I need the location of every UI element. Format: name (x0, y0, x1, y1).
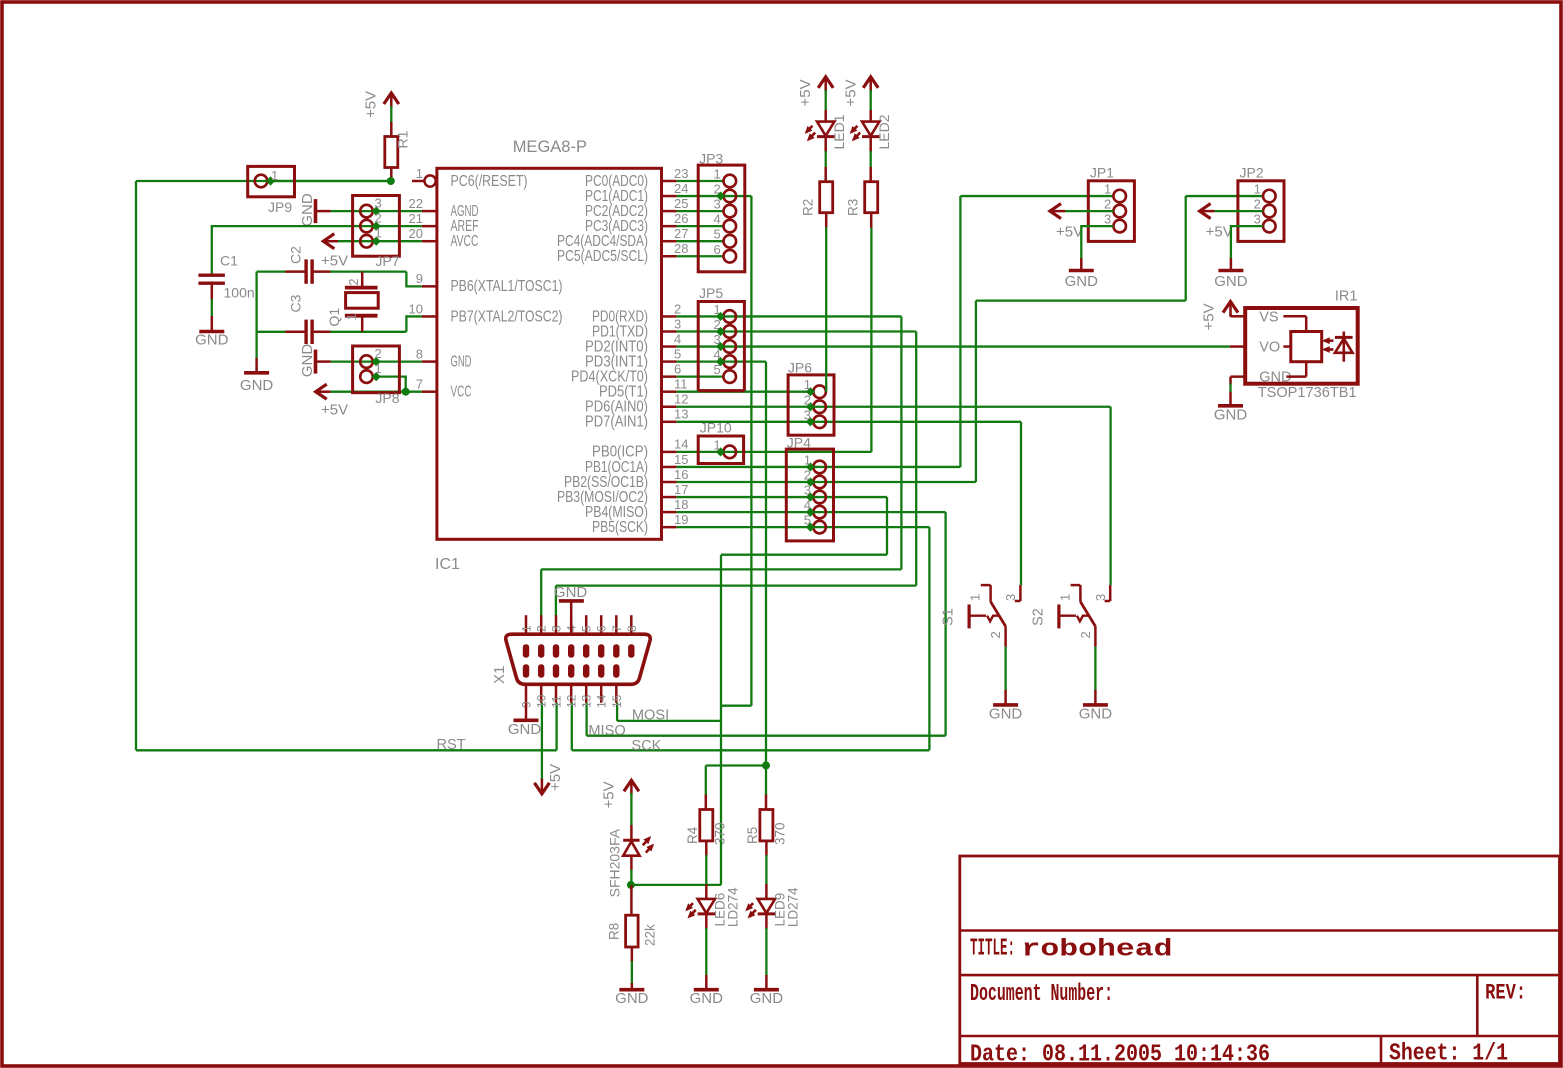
svg-text:SCK: SCK (631, 738, 661, 754)
svg-text:1: 1 (271, 168, 278, 183)
svg-text:1: 1 (713, 167, 720, 182)
svg-text:GND: GND (299, 344, 316, 378)
svg-text:1: 1 (375, 226, 382, 241)
IR1 photodiode symbol (1343, 332, 1346, 362)
power +5V arrow JP2 pin2 (1200, 204, 1211, 219)
IR receiver IR1 box (1245, 308, 1358, 384)
svg-text:6: 6 (595, 625, 609, 632)
svg-text:GND: GND (451, 353, 472, 370)
svg-text:6: 6 (713, 242, 720, 257)
svg-text:3: 3 (1254, 212, 1261, 227)
connector JP3 box (698, 165, 745, 272)
svg-text:2: 2 (375, 211, 382, 226)
svg-text:3: 3 (1093, 594, 1108, 601)
svg-text:GND: GND (1214, 273, 1248, 290)
wire AVCC net (338, 240, 422, 242)
svg-text:R4: R4 (685, 826, 700, 844)
svg-text:1: 1 (375, 361, 382, 376)
svg-text:+5V: +5V (1200, 303, 1217, 330)
IR1 detector box (1291, 332, 1322, 362)
svg-text:S1: S1 (941, 608, 957, 626)
svg-text:robohead: robohead (1022, 937, 1173, 964)
svg-text:IC1: IC1 (435, 556, 460, 573)
connector JP6 pins (813, 385, 826, 398)
connector JP1 pins (1113, 190, 1126, 203)
LED LED9 (758, 899, 775, 913)
svg-text:26: 26 (674, 211, 688, 226)
photodiode SFH203FA (623, 839, 639, 842)
wire reset junction to IC pin1 circle (412, 180, 424, 183)
ground for AGND (rotated) (314, 199, 318, 223)
svg-text:2: 2 (347, 279, 361, 286)
svg-text:3: 3 (1003, 594, 1018, 601)
LED LED2 branch +5V arrow (863, 77, 878, 88)
svg-text:GND: GND (690, 990, 724, 1007)
svg-text:10: 10 (409, 301, 423, 316)
IR1 pin VO lead (1230, 345, 1246, 348)
power +5V arrow VCC (316, 384, 327, 399)
svg-text:17: 17 (674, 482, 688, 497)
switch S2 pin 1 (1071, 584, 1081, 587)
IC pin 13 stub (662, 421, 677, 424)
svg-text:3: 3 (375, 196, 382, 211)
IC pin 18 stub (662, 511, 677, 514)
wire JP5-4 to R4/R5 net (721, 360, 767, 362)
ground below IR1 (1218, 404, 1243, 408)
connector JP4 box (786, 449, 833, 541)
wire RESET net from JP9 to IC pin 1 and left drop (136, 180, 391, 182)
IC pin 1 inversion circle (425, 175, 436, 186)
svg-text:370: 370 (773, 822, 788, 845)
connector JP7 box (353, 196, 400, 257)
svg-text:14: 14 (595, 694, 609, 708)
svg-text:VS: VS (1259, 309, 1278, 325)
svg-text:370: 370 (713, 822, 728, 845)
connector X1 pads bottom row (523, 664, 529, 677)
svg-text:4: 4 (713, 212, 720, 227)
svg-text:100n: 100n (224, 285, 255, 301)
svg-text:3: 3 (804, 407, 811, 422)
power +5V arrow down (534, 783, 549, 794)
photodiode branch +5V arrow (624, 780, 639, 791)
IR1 pin GND lead to ground (1231, 375, 1246, 378)
IC pin 4 stub (662, 345, 677, 348)
svg-text:+5V: +5V (601, 781, 618, 808)
svg-text:14: 14 (674, 437, 688, 452)
IC pin 5 stub (662, 360, 677, 363)
svg-text:12: 12 (674, 392, 688, 407)
wire XTAL2 net row (257, 331, 286, 333)
wire JP5-2 to X1 pin3 net (721, 330, 917, 332)
svg-text:11: 11 (550, 695, 564, 708)
svg-text:2: 2 (1254, 197, 1261, 212)
switch S2 pin 3 (1109, 585, 1112, 601)
svg-text:5: 5 (580, 625, 594, 632)
svg-text:JP10: JP10 (700, 419, 732, 435)
svg-text:1: 1 (345, 313, 359, 320)
ground below X1 pin9 (525, 703, 528, 721)
svg-text:GND: GND (1079, 705, 1113, 722)
IC pin 7 stub (422, 390, 437, 393)
svg-text:C3: C3 (288, 294, 304, 312)
svg-text:Sheet: 1/1: Sheet: 1/1 (1389, 1041, 1508, 1068)
svg-text:PB5(SCK): PB5(SCK) (592, 519, 648, 536)
svg-text:C1: C1 (220, 253, 238, 269)
svg-text:PD7(AIN1): PD7(AIN1) (585, 414, 648, 431)
svg-text:R8: R8 (607, 923, 622, 940)
connector JP10 pin (723, 446, 736, 459)
wire IC pin14 to JP10 and R3 net (677, 451, 724, 453)
ground below LED9 (754, 988, 779, 992)
svg-text:22k: 22k (643, 924, 658, 946)
connector JP2 box (1238, 181, 1284, 242)
ground below LED6 (694, 988, 719, 992)
IC pin 17 stub (662, 496, 677, 499)
IC pin 12 stub (662, 406, 677, 409)
svg-text:18: 18 (674, 497, 688, 512)
connector JP9 pin circle (255, 175, 268, 188)
ground below JP1 (1069, 269, 1094, 273)
wire VCC net (331, 391, 422, 393)
IC1 MEGA8-P body (437, 168, 662, 539)
connector JP8 box (353, 346, 400, 393)
wire JP4 pin3 net path (721, 554, 887, 556)
svg-text:C2: C2 (288, 246, 304, 264)
svg-text:Q1: Q1 (326, 308, 342, 327)
svg-text:Date: 08.11.2005 10:14:36: Date: 08.11.2005 10:14:36 (970, 1042, 1270, 1068)
svg-text:20: 20 (409, 226, 423, 241)
svg-text:13: 13 (674, 407, 688, 422)
resistor R8 (630, 885, 633, 916)
connector JP1 box (1088, 181, 1134, 242)
svg-text:JP8: JP8 (375, 390, 399, 406)
IC pin 11 stub (662, 390, 677, 393)
svg-text:+5V: +5V (797, 79, 814, 106)
wire JP4-4 MISO net (810, 511, 945, 513)
svg-text:R5: R5 (745, 827, 760, 844)
IC pin 6 stub (662, 375, 677, 378)
IC pin 23 stub (662, 180, 677, 183)
svg-text:JP5: JP5 (699, 285, 723, 301)
svg-text:7: 7 (416, 377, 423, 392)
svg-text:+5V: +5V (842, 79, 859, 106)
IC pin 8 stub (422, 360, 437, 363)
wire R2 to JP6 pin1 (825, 213, 828, 228)
svg-text:21: 21 (409, 211, 423, 226)
wire JP6-3 to S1 net (810, 421, 1021, 423)
svg-text:2: 2 (804, 392, 811, 407)
svg-text:PB6(XTAL1/TOSC1): PB6(XTAL1/TOSC1) (451, 278, 563, 295)
connector X1 pin stubs top (525, 615, 528, 634)
power +5V arrow JP1 pin2 (1050, 204, 1061, 219)
wire GND to JP8 pin2 (331, 360, 422, 362)
connector JP9 box (248, 166, 295, 196)
capacitor C1 (198, 274, 225, 277)
wire JP4-1 to JP1 net (810, 466, 960, 468)
wire XTAL1 net row (257, 270, 286, 272)
IC pin 24 stub (662, 195, 677, 198)
svg-text:10: 10 (535, 694, 549, 708)
svg-text:2: 2 (674, 301, 681, 316)
wire JP5-1 to X1 pin2 net (721, 315, 902, 317)
svg-text:12: 12 (565, 694, 579, 708)
IC pin 27 stub (662, 240, 677, 243)
wire JP2 pin3 to ground (1231, 226, 1263, 259)
svg-text:15: 15 (674, 452, 688, 467)
svg-text:2: 2 (375, 346, 382, 361)
wire left branch to ground (255, 272, 257, 359)
svg-text:GND: GND (299, 193, 316, 227)
svg-text:JP1: JP1 (1090, 165, 1114, 181)
ground below R8 (619, 988, 644, 992)
IC pin 10 stub (422, 315, 437, 318)
svg-text:5: 5 (804, 513, 811, 528)
crystal Q1 (361, 272, 364, 287)
wire JP5-3 to IR1 VO net (721, 345, 1230, 347)
resistor R4 (705, 795, 708, 811)
svg-text:LED2: LED2 (876, 114, 892, 149)
connector JP7 pins (360, 205, 373, 218)
ground below JP2 (1218, 269, 1243, 273)
svg-text:GND: GND (195, 332, 229, 349)
svg-text:+5V: +5V (321, 402, 348, 419)
LED LED1 (817, 122, 834, 136)
LED LED6 (698, 899, 715, 913)
resistor R5 (765, 795, 768, 811)
svg-text:TITLE:: TITLE: (970, 936, 1015, 963)
svg-text:JP2: JP2 (1240, 165, 1264, 181)
svg-text:2: 2 (988, 631, 1003, 638)
resistor R3 (865, 182, 878, 213)
svg-text:1: 1 (416, 166, 423, 181)
connector JP2 pins (1263, 190, 1276, 203)
svg-text:11: 11 (674, 377, 688, 392)
svg-text:PB7(XTAL2/TOSC2): PB7(XTAL2/TOSC2) (451, 308, 563, 325)
wire JP4-3 stub right (810, 496, 887, 498)
svg-text:2: 2 (535, 625, 549, 632)
wire MOSI from X1 pin15 (616, 703, 618, 721)
svg-text:8: 8 (625, 625, 639, 632)
power +5V arrow above R1 (384, 93, 399, 104)
wire R3 lead down (870, 213, 873, 228)
svg-text:22: 22 (409, 196, 423, 211)
node junction R4/R5 (762, 762, 770, 770)
wire +5V to R1 (390, 106, 392, 124)
svg-text:25: 25 (674, 196, 688, 211)
wires IC right pins to JP3 (677, 180, 724, 182)
svg-text:1: 1 (1254, 182, 1261, 197)
wire net PC1 bus vertical down (750, 196, 752, 706)
svg-text:Document Number:: Document Number: (970, 981, 1113, 1008)
svg-text:6: 6 (674, 361, 681, 376)
connector JP5 box bottom edge redraw (698, 389, 744, 392)
wire JP3 pin2 net to vertical bus (721, 195, 752, 197)
wire JP4-5 SCK net (810, 526, 929, 528)
svg-text:MEGA8-P: MEGA8-P (513, 138, 587, 156)
IC pin 16 stub (662, 481, 677, 484)
svg-text:MOSI: MOSI (632, 707, 669, 723)
LED LED1 branch +5V arrow (818, 77, 833, 88)
IC pin 25 stub (662, 210, 677, 213)
switch S1 actuator (967, 605, 970, 629)
svg-text:5: 5 (713, 227, 720, 242)
svg-text:1: 1 (520, 625, 534, 632)
wire JP4-2 to JP2 net (810, 481, 976, 483)
svg-text:GND: GND (989, 705, 1023, 722)
svg-text:JP9: JP9 (268, 199, 292, 215)
svg-text:JP7: JP7 (375, 253, 399, 269)
svg-text:28: 28 (674, 241, 688, 256)
connector JP6 box (788, 375, 834, 435)
resistor R2 (820, 182, 833, 213)
svg-text:2: 2 (1104, 197, 1111, 212)
svg-text:2: 2 (1078, 631, 1093, 638)
svg-text:1: 1 (713, 437, 720, 452)
connector X1 DB15 shell (506, 634, 651, 684)
connector JP4 pins (813, 461, 826, 474)
svg-text:IR1: IR1 (1335, 288, 1358, 304)
switch S2 pin 2 to ground (1094, 626, 1097, 646)
svg-text:MISO: MISO (588, 723, 625, 739)
IC pin 9 stub (422, 285, 437, 288)
svg-text:13: 13 (580, 694, 594, 708)
wire +5V drop X1 pin10 (541, 703, 543, 781)
svg-text:4: 4 (804, 498, 811, 513)
ground below S1 (993, 703, 1018, 707)
svg-text:+5V: +5V (362, 91, 379, 118)
IC pin 28 stub (662, 255, 677, 258)
svg-text:X1: X1 (491, 666, 508, 684)
ground below C1 (199, 330, 224, 334)
svg-text:3: 3 (550, 625, 564, 632)
svg-text:VO: VO (1259, 339, 1280, 355)
ground below S2 (1083, 703, 1108, 707)
svg-text:1: 1 (1057, 594, 1072, 601)
svg-text:15: 15 (610, 694, 624, 708)
svg-text:4: 4 (674, 331, 681, 346)
svg-text:1: 1 (968, 594, 983, 601)
svg-text:7: 7 (610, 625, 624, 632)
svg-text:GND: GND (508, 721, 542, 738)
svg-text:27: 27 (674, 226, 688, 241)
wire AREF net from C1 (212, 226, 422, 274)
switch S2 lever (1080, 602, 1095, 627)
svg-text:3: 3 (804, 483, 811, 498)
svg-text:5: 5 (674, 346, 681, 361)
wires IC right pins to JP5 (677, 315, 724, 317)
svg-text:1: 1 (804, 377, 811, 392)
node junction photodiode/R8 (627, 881, 635, 889)
svg-text:JP4: JP4 (787, 434, 811, 450)
svg-text:LED1: LED1 (831, 114, 847, 149)
IC pin 22 stub (422, 210, 437, 213)
wire R4/R5 top nets (706, 764, 766, 766)
svg-text:REV:: REV: (1485, 981, 1526, 1006)
IC pin 2 stub (662, 315, 677, 318)
svg-text:1: 1 (804, 452, 811, 467)
svg-text:LD274: LD274 (726, 887, 741, 927)
connector JP10 box (698, 436, 743, 464)
connector X1 pin stubs bottom (525, 684, 528, 702)
switch S1 pin 3 (1019, 585, 1022, 601)
svg-text:GND: GND (1214, 407, 1248, 424)
resistor R1 (385, 137, 398, 168)
wire JP6-2 to S2 net (810, 406, 1110, 408)
svg-text:+5V: +5V (1056, 224, 1083, 241)
switch S1 pin 1 (981, 584, 991, 587)
svg-text:+5V: +5V (547, 764, 564, 791)
IC pin 14 stub (662, 451, 677, 454)
svg-text:RST: RST (437, 737, 466, 753)
IC pin 3 stub (662, 330, 677, 333)
IC pin 20 stub (422, 240, 437, 243)
svg-text:+5V: +5V (1206, 224, 1233, 241)
svg-text:VCC: VCC (451, 384, 472, 401)
svg-text:JP6: JP6 (788, 359, 812, 375)
IC pin 21 stub (422, 225, 437, 228)
wire AGND net (331, 210, 422, 212)
svg-text:GND: GND (615, 990, 649, 1007)
svg-text:PC5(ADC5/SCL): PC5(ADC5/SCL) (557, 248, 648, 265)
svg-text:TSOP1736TB1: TSOP1736TB1 (1258, 385, 1357, 401)
svg-text:R1: R1 (395, 130, 411, 148)
svg-text:AVCC: AVCC (451, 233, 479, 250)
connector JP5 pins (723, 310, 736, 323)
svg-text:3: 3 (1104, 212, 1111, 227)
capacitor C3 (304, 320, 307, 344)
switch S1 pin 2 to ground (1004, 626, 1007, 646)
wire JP1 pin3 to ground (1081, 226, 1113, 259)
svg-text:JP3: JP3 (699, 151, 723, 167)
title block frame (960, 856, 1560, 1064)
wires IC pins 11-13 to JP6 (677, 391, 814, 393)
svg-text:19: 19 (674, 512, 688, 527)
ground for JP8 (rotated) (314, 350, 318, 374)
svg-text:LD274: LD274 (786, 887, 801, 927)
wire JP8 pin1 to VCC junction (376, 377, 406, 392)
svg-text:GND: GND (240, 377, 274, 394)
capacitor C2 (304, 259, 307, 283)
IC pin 19 stub (662, 526, 677, 529)
wire junction to PC1 bus (631, 884, 721, 886)
connector JP3 pins (724, 175, 737, 188)
svg-text:23: 23 (674, 166, 688, 181)
connector JP8 pins (360, 355, 373, 368)
svg-text:8: 8 (416, 346, 423, 361)
node junction VCC (402, 388, 410, 396)
connector JP5 box (698, 302, 744, 391)
IC pin 15 stub (662, 466, 677, 469)
connector X1 pads top row (523, 644, 529, 657)
wires IC pins 15-19 to JP4 (677, 466, 814, 468)
node junction R1/reset (387, 177, 395, 185)
svg-text:2: 2 (804, 468, 811, 483)
LED LED2 (862, 122, 879, 136)
svg-text:+5V: +5V (321, 253, 348, 270)
svg-text:GND: GND (554, 584, 588, 601)
IC pin 26 stub (662, 225, 677, 228)
svg-text:9: 9 (416, 271, 423, 286)
svg-text:1: 1 (1104, 182, 1111, 197)
svg-text:S2: S2 (1030, 608, 1046, 626)
wire RST row to X1 pin 11 (136, 749, 557, 751)
svg-text:R2: R2 (801, 199, 816, 216)
svg-text:24: 24 (674, 181, 688, 196)
svg-text:PC6(/RESET): PC6(/RESET) (451, 173, 528, 190)
svg-text:16: 16 (674, 467, 688, 482)
switch S2 actuator (1057, 605, 1060, 629)
power +5V arrow IR1 VS (1223, 302, 1238, 313)
